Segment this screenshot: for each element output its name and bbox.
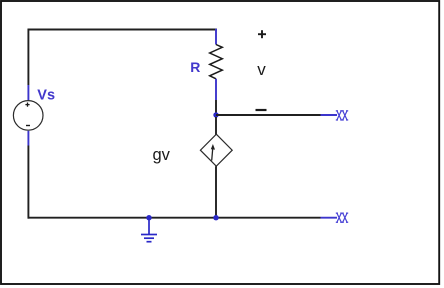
dependent current source G1 diamond body [200,134,232,166]
resistor R pin bottom [215,79,217,100]
wire G source down to bottom rail [215,166,217,218]
interface port pin mid [321,114,338,116]
voltage source V1 pin top [27,85,29,101]
interface port symbol bottom (xx) [336,213,348,222]
svg-text:Vs: Vs [37,88,55,104]
resistor R zigzag body [210,45,223,79]
label - (polarity minus) [256,109,267,111]
svg-text:v: v [257,60,266,79]
svg-text:gv: gv [153,146,171,164]
svg-text:R: R [190,59,200,75]
label gv [153,146,171,164]
wire bottom rail [28,217,321,219]
interface port symbol mid (xx) [336,111,348,120]
label R [190,59,200,75]
junction dot G bottom [213,215,218,220]
wire resistor to node [215,100,217,115]
wire mid rail (node v to port) [216,114,321,116]
wire node v down to G source [215,117,217,135]
ground symbol [141,218,157,242]
junction dot ground [146,215,151,220]
wire top (node from Vs+ to R) [28,29,217,31]
label + (polarity plus) [258,30,266,38]
voltage source V1 body [13,101,43,131]
junction dot node v [213,112,218,117]
voltage source V1 pin bottom [27,131,29,146]
label Vs [37,88,55,104]
wire left lower (Vs- down to bottom rail) [27,146,29,219]
wire left upper (top rail down to Vs) [27,29,29,85]
label v (node voltage) [257,60,266,79]
resistor R pin top [215,29,217,45]
interface port pin bottom [321,217,338,219]
